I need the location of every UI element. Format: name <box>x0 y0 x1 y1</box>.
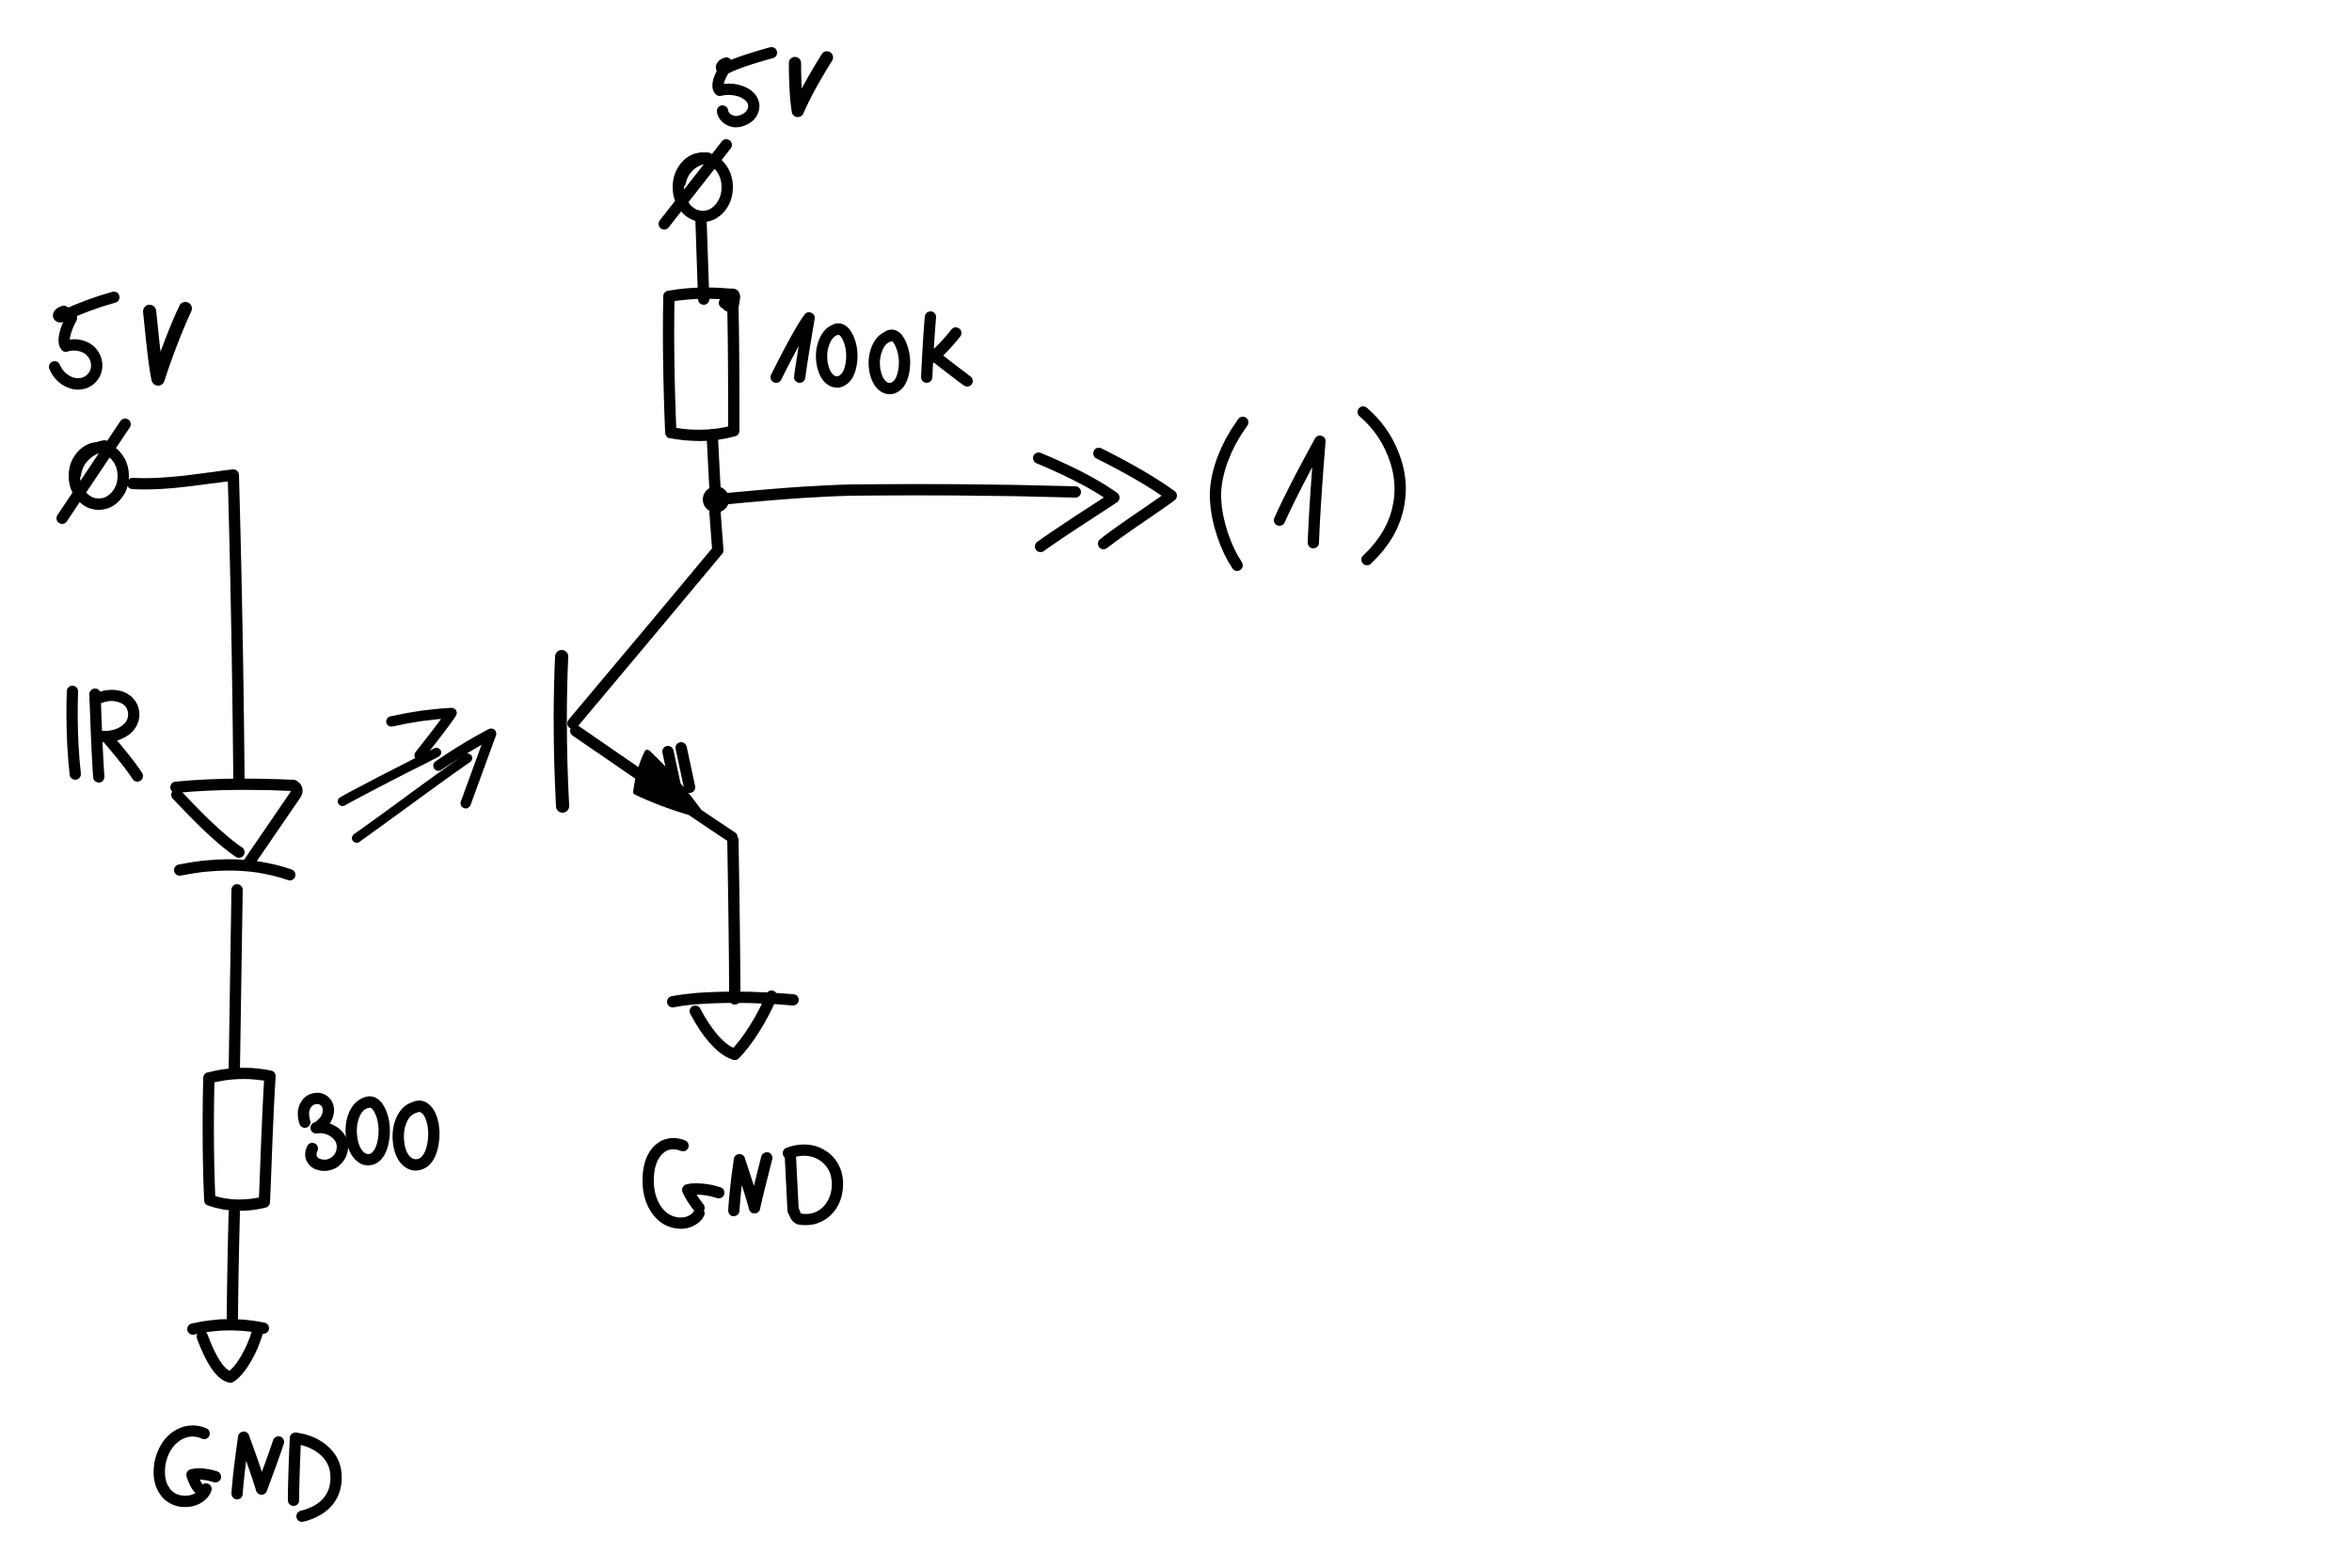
label GND (middle) <box>648 1144 837 1223</box>
ground (middle) <box>673 996 793 1054</box>
net label 5V (middle) <box>718 53 827 121</box>
wire emitter to ground <box>733 840 735 999</box>
wire power to resistor <box>701 217 704 299</box>
label 300 <box>304 1099 435 1165</box>
wire junction to collector <box>715 513 718 550</box>
phototransistor Q1 <box>561 550 732 837</box>
label 100k <box>776 317 967 388</box>
junction node <box>703 486 729 513</box>
wire resistor to ground <box>232 1212 234 1324</box>
label (1) <box>1216 412 1400 565</box>
resistor R1 300 <box>208 1073 270 1205</box>
light ray arrow 2 <box>357 734 491 838</box>
wire resistor to junction <box>712 435 715 489</box>
net label 5V (left) <box>55 297 185 384</box>
power terminal 5V (left) <box>62 424 125 518</box>
label IR <box>72 691 137 777</box>
light ray arrow 1 <box>342 713 452 801</box>
wire junction to output arrow <box>728 490 1075 499</box>
resistor R2 100k <box>669 293 735 436</box>
LED D1 (IR) <box>176 784 297 875</box>
wire LED to resistor <box>234 890 237 1072</box>
output arrow >> <box>1039 453 1171 546</box>
power terminal 5V (middle) <box>664 145 727 224</box>
wire power to LED anode <box>133 475 239 782</box>
label GND (left) <box>159 1431 336 1516</box>
ground (left) <box>193 1324 263 1377</box>
